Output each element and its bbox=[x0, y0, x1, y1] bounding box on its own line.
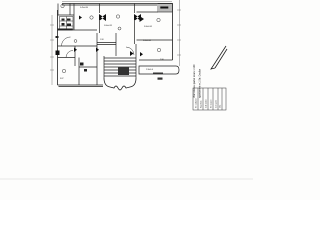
main floor plan outer walls bbox=[58, 4, 173, 87]
vertical annotation text center bbox=[193, 64, 202, 98]
svg-text:Obs.: Obs. bbox=[220, 104, 222, 108]
svg-text:2.30x5.6: 2.30x5.6 bbox=[146, 69, 153, 71]
curved entrance bay bbox=[104, 78, 136, 90]
room number circles bbox=[61, 4, 161, 72]
bathroom fixtures block top-left bbox=[60, 17, 74, 30]
svg-text:5.45x4.30: 5.45x4.30 bbox=[80, 7, 88, 9]
svg-text:apartament nr.1 Str. Dacilor: apartament nr.1 Str. Dacilor bbox=[199, 69, 202, 98]
dimension lines/ticks around plan bbox=[50, 0, 181, 85]
tiny dimension texts in plan (illegible) bbox=[60, 7, 164, 80]
stamp bbox=[0, 0, 1, 1]
black kitchen box left wall bbox=[56, 51, 60, 56]
faint scan line bbox=[0, 178, 253, 180]
main plan internal walls bbox=[58, 4, 173, 86]
svg-text:Cota parte: Cota parte bbox=[215, 100, 218, 108]
svg-text:Cod unitate: Cod unitate bbox=[205, 99, 208, 108]
svg-text:1.98: 1.98 bbox=[100, 39, 104, 41]
svg-text:Nr. cadastral: Nr. cadastral bbox=[195, 98, 198, 108]
door swing bowties (black) bbox=[74, 14, 144, 56]
svg-text:Suprafata: Suprafata bbox=[200, 101, 203, 108]
svg-text:2.98: 2.98 bbox=[160, 59, 164, 61]
svg-text:3.06x3.45: 3.06x3.45 bbox=[143, 40, 151, 42]
small rotated-text legend table bbox=[193, 88, 226, 110]
right wing (bottom-right band) bbox=[139, 66, 179, 74]
svg-text:3.87: 3.87 bbox=[60, 78, 64, 80]
svg-text:5.60x4.35: 5.60x4.35 bbox=[104, 25, 112, 27]
svg-text:3.06x3.45: 3.06x3.45 bbox=[144, 26, 152, 28]
pen stroke marks bbox=[211, 46, 227, 69]
central stairwell bbox=[104, 44, 136, 78]
svg-text:Plan releveu parter scara 1:1: Plan releveu parter scara 1:100 bbox=[193, 64, 196, 98]
door swing arcs bbox=[62, 37, 135, 58]
svg-text:Nr. incaperi: Nr. incaperi bbox=[210, 99, 213, 108]
top-right small stair box bbox=[158, 4, 172, 13]
